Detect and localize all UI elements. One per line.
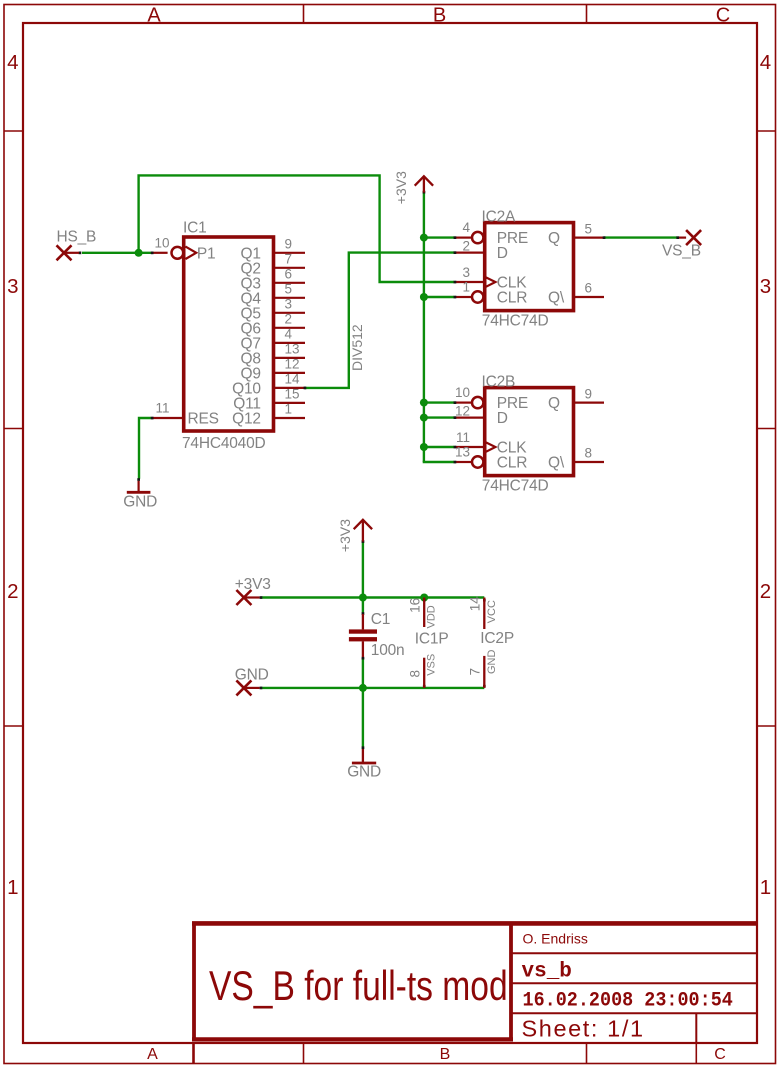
- svg-text:CLR: CLR: [497, 290, 527, 307]
- svg-text:4: 4: [462, 220, 470, 235]
- svg-text:3: 3: [760, 275, 771, 298]
- IC2A PRE bubble: [472, 232, 483, 243]
- pin end dot IC2A PRE: [454, 236, 457, 239]
- svg-text:DIV512: DIV512: [349, 324, 365, 371]
- frame left band divider 1: [4, 130, 23, 132]
- ground symbol GND under IC1: [127, 481, 151, 492]
- title block row line 2: [511, 982, 757, 984]
- svg-text:A: A: [147, 1046, 158, 1063]
- svg-text:GND: GND: [123, 493, 157, 510]
- svg-text:100n: 100n: [371, 642, 405, 659]
- svg-text:GND: GND: [347, 764, 381, 781]
- svg-text:14: 14: [285, 372, 301, 387]
- svg-text:P1: P1: [197, 245, 216, 262]
- pin end dot VDD top: [423, 599, 426, 602]
- pin end dot IC1 RES: [151, 417, 154, 420]
- pin end dot IC1 Q10: [304, 387, 307, 390]
- junction node IC2B CLK: [420, 443, 428, 451]
- IC2B pin 10 stub (PRE): [456, 402, 472, 404]
- svg-text:11: 11: [155, 401, 169, 416]
- power pin IC2P GND (pin 7): [483, 656, 485, 688]
- svg-text:B: B: [433, 5, 446, 27]
- pin end dot VS_B flag: [676, 236, 679, 239]
- frame bottom band divider 2: [586, 1043, 588, 1064]
- IC2A pin 2 stub (D): [456, 252, 485, 254]
- svg-text:VSS: VSS: [426, 654, 438, 676]
- svg-text:+3V3: +3V3: [337, 519, 353, 552]
- svg-text:7: 7: [467, 668, 482, 676]
- title block bottom edge: [192, 1037, 513, 1041]
- junction node top rail at C1: [359, 594, 367, 602]
- svg-text:VS_B: VS_B: [662, 242, 701, 259]
- svg-text:8: 8: [585, 446, 593, 461]
- svg-text:14: 14: [467, 596, 482, 612]
- svg-text:D: D: [497, 410, 508, 427]
- frame bottom band divider 1: [303, 1043, 305, 1064]
- IC2A pin numbers left: [462, 220, 470, 294]
- svg-text:2: 2: [760, 580, 771, 603]
- pin end dot +3V3 arrow lower: [362, 540, 365, 543]
- frame top band divider 2: [586, 5, 588, 24]
- svg-text:16.02.2008 23:00:54: 16.02.2008 23:00:54: [523, 989, 734, 1012]
- wire top power rail: [262, 596, 485, 598]
- wire +3V3 to IC2B CLK: [424, 446, 454, 448]
- IC2B pin 8 stub (Q\): [574, 461, 605, 463]
- IC2B body: [485, 388, 574, 476]
- svg-text:74HC74D: 74HC74D: [482, 477, 549, 494]
- svg-text:5: 5: [585, 221, 593, 236]
- wire DIV512 net from IC1 Q10 to IC2A D: [305, 253, 454, 388]
- wire +3V3 to IC2A CLR: [424, 296, 454, 298]
- svg-text:13: 13: [285, 342, 300, 357]
- svg-text:GND: GND: [486, 650, 498, 675]
- IC1 pin 11 stub (RES): [153, 417, 184, 419]
- svg-text:Q\: Q\: [548, 290, 565, 307]
- IC1 P1 inversion bubble: [172, 247, 184, 259]
- pin end dot VSS bottom: [423, 685, 426, 688]
- IC2B CLR bubble: [472, 456, 483, 467]
- flip-flop IC2B 74HC74D: [455, 373, 604, 494]
- svg-text:3: 3: [462, 265, 470, 280]
- svg-text:1: 1: [285, 402, 293, 417]
- svg-text:C: C: [716, 5, 730, 27]
- IC2A pin names: [497, 230, 528, 306]
- wire +3V3 vertical rail upper: [423, 193, 425, 463]
- IC1 right pin numbers: [285, 237, 301, 417]
- pin end dot IC2A CLR: [454, 296, 457, 299]
- svg-text:12: 12: [455, 403, 470, 418]
- IC2A CLK triangle: [485, 277, 496, 287]
- junction node IC2B PRE: [420, 399, 428, 407]
- IC1 output pin stubs Q1-Q12: [274, 253, 306, 418]
- pin end dot IC2A Q: [603, 236, 606, 239]
- svg-text:2: 2: [285, 312, 293, 327]
- frame bottom band tick at sheet divider: [695, 1043, 697, 1064]
- frame left band divider 2: [4, 428, 23, 430]
- TITLEBLOCK: [192, 923, 757, 1042]
- svg-text:vs_b: vs_b: [522, 961, 572, 984]
- svg-text:IC1: IC1: [183, 219, 207, 236]
- pin end dot IC2B CLK: [454, 446, 457, 449]
- IC2B pin 9 stub (Q): [574, 402, 605, 404]
- power pin IC1P VDD (pin 16): [423, 598, 425, 628]
- IC2B PRE bubble: [472, 397, 483, 408]
- junction node HS_B: [135, 249, 143, 257]
- svg-text:9: 9: [285, 237, 293, 252]
- svg-text:1: 1: [760, 876, 771, 899]
- svg-text:VCC: VCC: [486, 600, 498, 623]
- svg-text:10: 10: [154, 236, 169, 251]
- svg-text:+3V3: +3V3: [235, 576, 271, 593]
- IC2A CLR bubble: [472, 291, 483, 302]
- ground symbol GND bottom: [352, 749, 376, 763]
- svg-text:RES: RES: [188, 411, 219, 428]
- pin end dot +3V3 X flag: [260, 596, 263, 599]
- pin end dot IC2B PRE: [454, 401, 457, 404]
- frame bottom band tick at title block edge: [192, 1043, 195, 1064]
- svg-text:CLR: CLR: [497, 455, 527, 472]
- svg-text:3: 3: [7, 275, 18, 298]
- junction node IC2A PRE: [420, 234, 428, 242]
- frame right band divider 1: [757, 130, 776, 132]
- svg-text:15: 15: [285, 387, 300, 402]
- svg-text:VS_B for full-ts mod: VS_B for full-ts mod: [209, 964, 508, 1010]
- svg-text:12: 12: [285, 357, 300, 372]
- wire +3V3 to IC2B D: [424, 416, 454, 418]
- counter IC1 74HC4040D: [153, 219, 306, 452]
- junction node IC2B D: [420, 414, 428, 422]
- svg-text:7: 7: [285, 252, 293, 267]
- svg-text:5: 5: [285, 282, 293, 297]
- wire HS_B junction up over and down to IC2A CLK: [139, 175, 454, 282]
- title block main divider: [509, 924, 513, 1042]
- pin end dot GND under IC1: [137, 478, 140, 481]
- svg-text:A: A: [147, 5, 161, 27]
- IC2B CLK triangle: [485, 442, 496, 452]
- wire +3V3 corner to IC2B CLR: [423, 461, 454, 463]
- power pin IC2P VCC (pin 14): [483, 598, 485, 630]
- wire bottom rail down to GND symbol: [362, 688, 364, 747]
- svg-text:O. Endriss: O. Endriss: [523, 931, 588, 947]
- IC2A body: [485, 223, 574, 311]
- svg-text:IC2A: IC2A: [482, 208, 517, 225]
- svg-text:2: 2: [7, 580, 18, 603]
- capacitor C1: [349, 614, 377, 657]
- pin end dot IC2A D: [454, 251, 457, 254]
- wire C1 bottom to bottom rail: [362, 658, 364, 688]
- svg-text:9: 9: [585, 386, 593, 401]
- svg-text:1: 1: [462, 279, 470, 294]
- pin end dot HS_B flag: [79, 252, 82, 255]
- svg-text:3: 3: [285, 297, 293, 312]
- svg-text:Q\: Q\: [548, 455, 565, 472]
- svg-text:D: D: [497, 245, 508, 262]
- net flag HS_B: [57, 245, 80, 260]
- net flag VS_B: [679, 230, 701, 245]
- IC2A pin 3 stub (CLK): [456, 281, 485, 283]
- svg-text:4: 4: [760, 51, 771, 74]
- svg-text:13: 13: [455, 444, 470, 459]
- wire +3V3 arrow to top power rail: [362, 542, 364, 613]
- flip-flop IC2A 74HC74D: [456, 208, 605, 329]
- IC2B pin 11 stub (CLK): [456, 446, 485, 448]
- IC2A pin 1 stub (CLR): [456, 296, 472, 298]
- title block left edge: [192, 924, 196, 1042]
- title block sheet cell divider: [695, 1013, 697, 1042]
- IC2B pin numbers left: [455, 385, 470, 459]
- supply flag GND left: [236, 680, 259, 695]
- svg-text:Q: Q: [548, 230, 560, 247]
- IC1 pin 10 stub (P1): [153, 252, 168, 254]
- svg-text:C1: C1: [371, 611, 390, 628]
- pin end dot GND7 bottom: [483, 685, 486, 688]
- svg-text:8: 8: [407, 670, 422, 678]
- wire +3V3 to IC2A PRE: [424, 236, 454, 238]
- frame left band divider 3: [4, 725, 23, 727]
- pin end dot IC2B D: [454, 416, 457, 419]
- IC2A pin 4 stub (PRE): [456, 237, 472, 239]
- wire IC1 RES to GND: [139, 418, 151, 479]
- svg-text:Q: Q: [548, 395, 560, 412]
- svg-text:B: B: [440, 1046, 451, 1063]
- svg-text:11: 11: [456, 430, 470, 445]
- svg-text:Sheet: 1/1: Sheet: 1/1: [522, 1016, 645, 1042]
- svg-text:16: 16: [407, 598, 422, 613]
- svg-text:HS_B: HS_B: [57, 228, 97, 245]
- svg-text:IC1P: IC1P: [415, 630, 449, 647]
- pin end dot VCC top: [483, 599, 486, 602]
- frame top band divider 1: [303, 5, 305, 24]
- power pin IC1P VSS (pin 8): [423, 658, 425, 688]
- svg-text:6: 6: [585, 281, 593, 296]
- power symbol +3V3 arrow upper: [415, 176, 433, 192]
- IC2B pin names: [497, 395, 528, 471]
- IC1 pin names Q1-Q12: [232, 245, 261, 427]
- IC1 body: [184, 237, 274, 431]
- wire bottom power rail: [262, 687, 485, 689]
- title block top edge: [192, 921, 757, 926]
- svg-text:C: C: [714, 1046, 726, 1063]
- svg-text:4: 4: [7, 51, 18, 74]
- pin end dot GND X flag: [260, 687, 263, 690]
- svg-text:2: 2: [462, 238, 470, 253]
- svg-text:Q12: Q12: [232, 411, 261, 428]
- svg-text:6: 6: [285, 267, 293, 282]
- junction node top rail at VDD: [420, 594, 428, 602]
- IC2A pin 6 stub (Q\): [574, 296, 605, 298]
- svg-text:4: 4: [285, 327, 293, 342]
- svg-text:1: 1: [7, 876, 18, 899]
- svg-text:GND: GND: [235, 667, 269, 684]
- title block row line 1: [511, 952, 757, 954]
- IC2A pin 5 stub (Q): [574, 237, 605, 239]
- frame right band divider 3: [757, 725, 776, 727]
- IC2B pin 12 stub (D): [456, 417, 485, 419]
- wire HS_B flag to junction: [82, 252, 151, 254]
- supply flag +3V3 left: [236, 590, 259, 605]
- svg-text:VDD: VDD: [426, 605, 438, 628]
- pin end dot C1 bottom: [362, 657, 365, 660]
- junction node IC2A CLR: [420, 293, 428, 301]
- power symbol +3V3 arrow lower: [354, 520, 372, 542]
- svg-text:IC2P: IC2P: [480, 630, 514, 647]
- svg-text:+3V3: +3V3: [393, 171, 409, 204]
- frame right band divider 2: [757, 428, 776, 430]
- svg-text:IC2B: IC2B: [482, 373, 516, 390]
- pin end dot IC2B CLR: [454, 461, 457, 464]
- pin end dot IC2A CLK: [454, 281, 457, 284]
- svg-text:74HC74D: 74HC74D: [482, 312, 549, 329]
- wire IC2A Q to VS_B flag: [604, 236, 677, 238]
- title block row line 3: [511, 1012, 757, 1014]
- IC1 P1 clock triangle: [186, 247, 197, 259]
- svg-text:74HC4040D: 74HC4040D: [182, 435, 266, 452]
- PINDOTS: [79, 191, 680, 749]
- pin end dot +3V3 arrow upper: [423, 191, 426, 194]
- junction node bottom rail at C1: [359, 684, 367, 692]
- pin end dot IC1 P1: [151, 252, 154, 255]
- pin end dot GND symbol bottom: [362, 746, 365, 749]
- IC2B pin 13 stub (CLR): [456, 461, 472, 463]
- pin end dot C1 top: [362, 612, 365, 615]
- wire +3V3 to IC2B PRE: [424, 401, 454, 403]
- svg-text:10: 10: [455, 385, 470, 400]
